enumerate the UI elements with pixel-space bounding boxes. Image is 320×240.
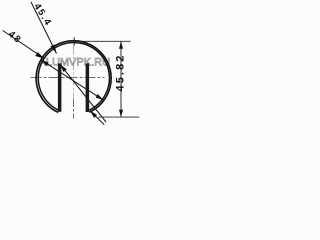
arrowhead 48 <box>35 52 44 59</box>
diagonal chord dimension line Q <box>41 60 104 100</box>
arrowhead 45.82 top <box>119 41 123 49</box>
45.82 dimension line <box>120 41 122 117</box>
mouth corner leader <box>90 111 104 125</box>
45.4 leader line <box>31 2 57 54</box>
arrowhead mouth leader <box>90 111 97 118</box>
right slot wall <box>86 63 90 112</box>
diagonal dimension line P <box>60 64 106 122</box>
45.82 bottom extension line <box>98 116 139 118</box>
48 leader line <box>3 31 45 59</box>
centerline top tick <box>73 37 75 45</box>
arrowhead 45.82 bottom <box>119 110 123 118</box>
arrowhead Q upper <box>41 60 49 66</box>
arrowhead Q lower <box>96 94 104 100</box>
inner circle (profile inner wall, slot gap at bottom) <box>38 42 109 110</box>
svg-text:45.82: 45.82 <box>115 53 127 91</box>
left slot wall <box>58 63 62 111</box>
centerline vertical <box>73 46 75 99</box>
background <box>0 0 144 128</box>
outer circle (profile outer wall, slot gap at bottom) <box>36 41 111 113</box>
centerline horizontal <box>31 77 105 79</box>
45.82 top extension line <box>75 40 131 42</box>
svg-text:ALUMVPK.RU: ALUMVPK.RU <box>39 57 111 69</box>
arrowhead 45.4 <box>51 45 57 54</box>
arrowhead P upper <box>60 64 67 72</box>
